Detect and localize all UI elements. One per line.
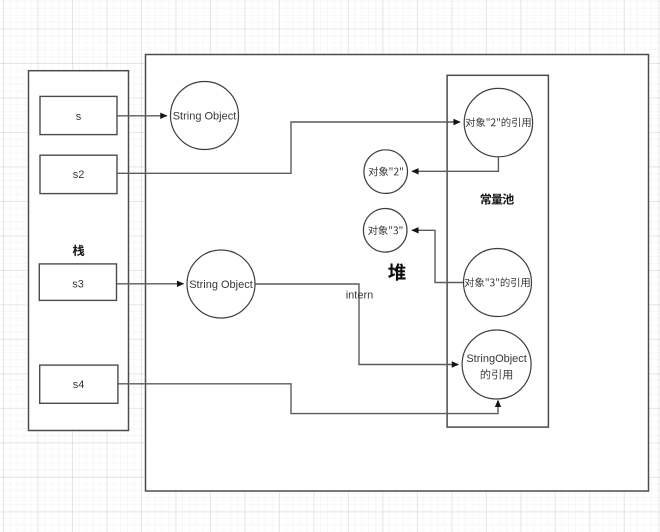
circle obj"2": [364, 150, 408, 194]
wire s4 -> StringObject reference (bottom): [118, 384, 498, 414]
circle obj"2" reference: [464, 88, 532, 156]
svg-text:String Object: String Object: [189, 279, 253, 291]
wire s2 -> obj"2" reference: [118, 122, 461, 173]
box s: [40, 96, 117, 134]
stack container rectangle: [29, 71, 129, 431]
label stack (zhan): [73, 245, 85, 257]
wire s3 -> String Object 2: [117, 283, 184, 285]
svg-text:s4: s4: [73, 379, 85, 391]
box s2: [40, 155, 117, 193]
wire obj"2" reference -> obj"2": [412, 157, 498, 171]
circle String Object 1: [171, 82, 239, 150]
label constant pool (changliangchi): [481, 193, 514, 204]
box s3: [39, 264, 116, 301]
label heap (dui): [388, 263, 405, 280]
svg-text:StringObject: StringObject: [466, 353, 527, 365]
svg-text:s: s: [76, 111, 82, 123]
svg-text:s2: s2: [73, 169, 85, 181]
wire String Object 2 -> intern -> StringObject reference: [255, 284, 458, 365]
circle obj"3" reference: [464, 249, 532, 317]
circle obj"3": [363, 209, 407, 253]
heap container rectangle: [146, 55, 649, 492]
circle StringObject reference: [462, 330, 531, 399]
box s4: [40, 365, 118, 403]
svg-text:intern: intern: [346, 290, 374, 302]
label intern: [346, 290, 374, 302]
constant pool rectangle: [447, 75, 548, 427]
svg-text:s3: s3: [72, 279, 84, 291]
svg-text:String Object: String Object: [173, 111, 237, 123]
circle String Object 2: [187, 250, 255, 318]
wire obj"3" reference -> obj"3": [412, 230, 463, 282]
wire s -> String Object 1: [118, 115, 167, 117]
